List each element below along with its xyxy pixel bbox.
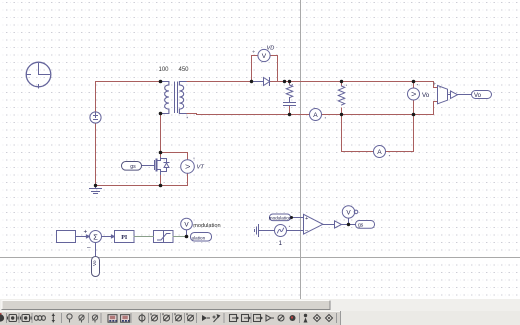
svg-text:modulation: modulation (269, 215, 292, 220)
svg-text:V: V (185, 164, 192, 169)
svg-text:gs: gs (358, 223, 364, 229)
svg-text:ulation: ulation (192, 235, 206, 240)
svg-text:+: + (305, 216, 308, 222)
svg-text:100: 100 (159, 67, 170, 73)
svg-text:VD: VD (267, 46, 275, 52)
svg-text:V: V (411, 91, 418, 96)
svg-text:1: 1 (279, 240, 283, 247)
svg-text:A: A (313, 112, 318, 119)
svg-text:+: + (84, 229, 88, 236)
svg-text:gs: gs (130, 164, 136, 170)
svg-text:450: 450 (179, 67, 190, 73)
svg-text:modulation: modulation (193, 223, 220, 229)
svg-text:–: – (87, 244, 91, 251)
svg-text:+: + (439, 85, 442, 90)
svg-text:V: V (262, 53, 267, 60)
svg-text:+: + (252, 50, 255, 56)
svg-text:Vo: Vo (422, 92, 430, 99)
svg-text:A: A (377, 149, 382, 156)
svg-text:V: V (184, 222, 189, 229)
svg-text:Vo: Vo (474, 93, 482, 99)
svg-text:Σ: Σ (93, 232, 98, 241)
svg-text:Vo: Vo (92, 260, 98, 266)
svg-text:+: + (433, 82, 436, 88)
svg-text:PI: PI (121, 235, 128, 241)
svg-text:VT: VT (197, 164, 205, 170)
svg-text:V: V (346, 210, 351, 217)
